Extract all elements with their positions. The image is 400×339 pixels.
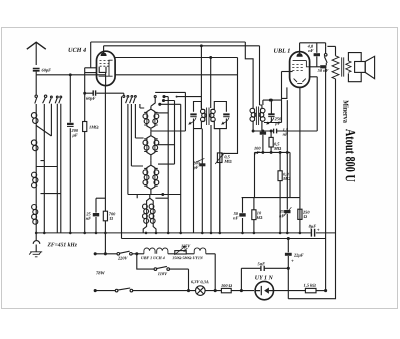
coil L2 xyxy=(35,140,37,172)
node grid junction xyxy=(84,92,86,94)
25nF cap x=287.3 xyxy=(286,100,288,233)
left winding xyxy=(254,109,256,121)
switch top right xyxy=(324,54,327,57)
wire antenna rail y=74.8 xyxy=(36,74,105,76)
5nF wire xyxy=(241,268,288,290)
right loop with trimmer 250pF xyxy=(264,72,282,123)
diode pin jog xyxy=(282,87,287,98)
svg-text:ZF=451 kHz: ZF=451 kHz xyxy=(46,242,77,248)
svg-text:UBL 1: UBL 1 xyxy=(274,48,291,55)
detector rail y=131 xyxy=(253,130,317,132)
heater curls UY1N xyxy=(194,248,206,254)
heater chain curls xyxy=(144,248,168,254)
mains wire 220V xyxy=(95,253,117,255)
transformer T2 xyxy=(143,132,159,161)
svg-text:+: + xyxy=(317,228,320,233)
node AVC junction xyxy=(69,74,71,76)
capacitor 22uF xyxy=(285,253,292,256)
junction dots bus xyxy=(35,232,301,235)
resistor 100 Ohm xyxy=(221,288,231,292)
svg-text:Minerva: Minerva xyxy=(341,100,350,123)
resistor 1MOhm xyxy=(83,122,87,132)
rail C y=57.5 from tube to detector drop xyxy=(115,58,237,154)
wire 60pF coupling y=93.2 xyxy=(85,93,124,95)
capacitor 60pF coupling xyxy=(93,90,95,95)
vertical tap lines xyxy=(51,104,60,194)
100pF cap x=262.9 xyxy=(262,135,264,153)
wire top rail y=92.4 to x=185.4 xyxy=(151,92,185,131)
wire xyxy=(69,75,71,233)
transformer core xyxy=(342,57,344,76)
resistor 250 Ohm x=299.9 xyxy=(299,209,301,233)
svg-text:UCH 4: UCH 4 xyxy=(68,47,86,54)
oscillator transformer T4 (bottom) xyxy=(128,194,164,233)
switch S1b contact xyxy=(44,95,46,97)
rectifier UY1N xyxy=(255,281,273,299)
svg-text:nF: nF xyxy=(279,213,284,218)
secondary xyxy=(346,61,351,72)
capacitor 200uF xyxy=(67,123,74,125)
rail y=194.5 to x=180.7 xyxy=(155,195,180,199)
svg-text:MΩ: MΩ xyxy=(282,176,291,181)
resistor 700 Ohm xyxy=(103,211,107,221)
svg-text:UY 1 N: UY 1 N xyxy=(255,275,274,281)
tube UCH4 envelope xyxy=(97,51,116,85)
grids dashes xyxy=(100,61,110,67)
top cap xyxy=(297,54,302,56)
diode drop from UBL1 x=317.2 xyxy=(309,77,317,131)
cathode entry xyxy=(105,72,107,74)
rail A y=42 xyxy=(91,42,253,105)
wire contact 2 to tap xyxy=(158,101,175,165)
svg-text:MΩ: MΩ xyxy=(223,159,232,164)
svg-text:μF: μF xyxy=(72,133,78,138)
output transformer primary xyxy=(335,46,337,55)
switch contact row right of T1 xyxy=(163,96,165,98)
secondary loop xyxy=(348,53,361,82)
wire top corner into tube xyxy=(90,42,92,68)
svg-text:78W: 78W xyxy=(96,270,106,275)
wire grid to tube xyxy=(85,67,97,69)
switch blade xyxy=(35,98,37,113)
capacitor 1.5nF xyxy=(274,129,277,134)
left winding xyxy=(201,110,204,122)
svg-text:UBF 1 UCH 4: UBF 1 UCH 4 xyxy=(141,255,165,260)
diode plates xyxy=(294,79,306,84)
link into IF1 xyxy=(177,96,202,98)
tap wires xyxy=(36,126,61,194)
coil L4 xyxy=(35,204,37,233)
svg-text:60pF: 60pF xyxy=(42,68,52,73)
volume pot 0.5M xyxy=(217,153,222,163)
long vertical x=326.2 xyxy=(325,68,327,290)
transformer T3 xyxy=(143,160,159,194)
22uF line x=288.3 xyxy=(287,239,289,299)
drop x=210.7 xyxy=(210,58,212,109)
anode xyxy=(293,61,310,67)
bottom leads xyxy=(194,125,212,233)
svg-text:Atout 800 U: Atout 800 U xyxy=(342,129,357,182)
left loop with trimmer xyxy=(194,102,202,129)
inner cup xyxy=(99,67,106,73)
svg-text:nF: nF xyxy=(233,215,238,220)
coil L3 xyxy=(35,172,37,204)
wire x=290 rail to cathode rail xyxy=(289,152,291,197)
tube UBL1 envelope xyxy=(290,52,310,88)
main bus y=232.9 xyxy=(36,232,335,234)
bridge xyxy=(96,197,105,199)
switch S1a contact xyxy=(35,95,37,97)
capacitor C-ant 60pF xyxy=(33,69,40,71)
ground xyxy=(29,252,42,257)
antenna coil column x=36.2 with switch xyxy=(35,75,37,95)
svg-text:50 nF: 50 nF xyxy=(318,68,329,73)
capacitor 25nF xyxy=(93,213,99,216)
50nF cathode cap x=242.5 xyxy=(242,198,244,233)
svg-text:350Ω 580Ω UY1N: 350Ω 580Ω UY1N xyxy=(171,255,203,260)
svg-text:5nF: 5nF xyxy=(258,261,266,266)
right loop with trimmer xyxy=(214,102,226,129)
right winding xyxy=(211,110,214,122)
coil L1 xyxy=(35,113,37,140)
cathode line x=105.4 with 700 Ohm xyxy=(104,75,106,254)
svg-text:100 Ω: 100 Ω xyxy=(221,283,233,288)
wire band-switch taps to bus xyxy=(44,161,61,233)
mains wire 2 xyxy=(95,290,115,292)
svg-text:220V: 220V xyxy=(117,256,129,261)
grid dashes xyxy=(292,64,303,70)
grid cap rail to 4.8nF xyxy=(300,43,326,47)
svg-text:+: + xyxy=(291,259,294,264)
wire contact 3 down xyxy=(160,104,181,233)
wire antenna rail right of tube xyxy=(115,74,238,76)
svg-text:60pF: 60pF xyxy=(86,96,96,101)
capacitor 5nF xyxy=(261,266,264,271)
cathode lead xyxy=(299,87,301,197)
svg-text:6,3V 0,3A: 6,3V 0,3A xyxy=(191,279,209,284)
svg-text:nF: nF xyxy=(308,48,313,53)
core xyxy=(256,107,258,126)
svg-text:110V: 110V xyxy=(158,271,168,276)
svg-text:pF: pF xyxy=(254,150,260,155)
capacitor 4.8nF xyxy=(316,43,318,67)
svg-text:8μF: 8μF xyxy=(309,224,317,229)
speaker xyxy=(355,62,366,73)
leads xyxy=(253,105,262,109)
tap T2 right xyxy=(158,144,175,146)
grid leak line x=84.7 with 1M resistor xyxy=(84,68,86,233)
cathode RC x=96 25nF xyxy=(95,198,97,233)
dropping resistor with tap xyxy=(175,251,186,254)
resistor 0.5M x=271.1 xyxy=(270,131,272,152)
top cap xyxy=(101,53,106,55)
rail B y=45.8 xyxy=(104,46,260,105)
svg-text:nF: nF xyxy=(283,132,288,137)
antenna xyxy=(27,42,46,49)
tap T1 right xyxy=(158,112,169,114)
8uF cap in bus xyxy=(311,229,314,237)
anode xyxy=(99,60,113,76)
svg-text:22μF: 22μF xyxy=(293,252,304,257)
AF rail y=152.4 xyxy=(255,151,291,153)
osc grid drop x=201.4 xyxy=(200,46,202,108)
right winding xyxy=(259,109,261,121)
grid lead xyxy=(290,71,293,73)
switch contacts row xyxy=(123,95,125,97)
resistor 1.5k xyxy=(305,288,316,292)
switch drop wires xyxy=(121,96,123,238)
svg-text:pF: pF xyxy=(274,121,280,126)
200pF capacitor on x=202.3 xyxy=(199,163,205,166)
110V branch xyxy=(137,254,154,269)
transformer T1 xyxy=(143,96,159,132)
drop to cathode rail x=254.5 xyxy=(254,152,256,197)
AVC resistor 0.8M on x=280.1 xyxy=(279,152,281,233)
grid feed line y=100.1 xyxy=(263,99,282,101)
svg-text:pF: pF xyxy=(193,165,199,170)
svg-text:kΩ: kΩ xyxy=(257,215,263,220)
rail2 y=238.5 xyxy=(122,238,326,240)
dial lamp xyxy=(196,286,206,296)
capacitor 50nF (plate) xyxy=(320,65,326,68)
svg-text:1MΩ: 1MΩ xyxy=(89,125,99,130)
wire contact 1 down xyxy=(164,97,168,233)
grid wire UBL1 xyxy=(282,71,290,73)
connector arc above ground xyxy=(33,233,40,252)
core xyxy=(207,108,209,126)
svg-text:nF: nF xyxy=(86,216,91,221)
svg-text:1,5 kΩ: 1,5 kΩ xyxy=(304,283,317,288)
cathode rail y=197.6 xyxy=(242,197,300,199)
svg-text:MΩ: MΩ xyxy=(273,146,282,151)
10k resistor x=253.9 xyxy=(253,198,255,233)
svg-text:115V: 115V xyxy=(181,243,191,248)
wire grid2 to tube xyxy=(85,72,97,74)
